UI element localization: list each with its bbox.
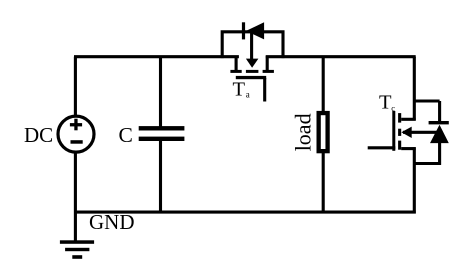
wire Ta right stub bbox=[266, 56, 269, 71]
transistor Tc channel bars bbox=[398, 113, 401, 150]
wire Tc source vertical bbox=[413, 147, 416, 213]
wire Tc diode branch return bbox=[413, 162, 441, 165]
load resistor box bbox=[319, 113, 328, 151]
wire Tc source lead bbox=[401, 147, 416, 150]
wire Tc drain lead bbox=[401, 118, 416, 121]
diode Dc triangle bbox=[430, 125, 449, 143]
wire Ta antiparallel diode branch bbox=[222, 32, 283, 58]
wire Tc diode bottom lead bbox=[438, 143, 441, 165]
wire Tc drain vertical bbox=[413, 57, 416, 121]
dc source plus sign bbox=[70, 119, 82, 131]
wire load bottom lead bbox=[322, 153, 325, 213]
capacitor C plates bbox=[139, 126, 185, 141]
transistor Ta channel bars bbox=[230, 70, 274, 73]
svg-text:a: a bbox=[246, 90, 250, 100]
dc source minus sign bbox=[71, 140, 83, 144]
svg-text:T: T bbox=[379, 92, 392, 114]
svg-text:DC: DC bbox=[24, 123, 53, 147]
diode Dc cathode bar bbox=[429, 121, 449, 124]
svg-text:C: C bbox=[119, 123, 133, 147]
wire capacitor top lead bbox=[159, 57, 162, 127]
svg-text:load: load bbox=[291, 113, 316, 151]
svg-text:T: T bbox=[233, 79, 246, 101]
ground symbol bbox=[60, 240, 94, 258]
wire Ta gate lead bbox=[263, 78, 266, 102]
svg-text:c: c bbox=[391, 103, 395, 113]
wire ground stub bbox=[74, 212, 77, 241]
wire Tc diode top lead bbox=[438, 101, 441, 123]
wire capacitor bottom lead bbox=[159, 140, 162, 212]
wire Tc diode branch top bbox=[413, 99, 440, 102]
wire DC source top lead bbox=[74, 57, 77, 116]
diode Da triangle bbox=[246, 22, 264, 39]
wire Tc gate lead bbox=[368, 146, 396, 149]
wire load top lead bbox=[322, 57, 325, 112]
transistor Ta gate bar bbox=[236, 76, 266, 79]
transistor Tc gate bar bbox=[392, 111, 395, 151]
wire bottom rail bbox=[74, 211, 416, 214]
svg-text:GND: GND bbox=[89, 210, 135, 234]
transistor Ta body arrow bbox=[246, 32, 259, 68]
wire top rail right segment bbox=[266, 55, 416, 58]
transistor Tc body arrow bbox=[401, 127, 439, 138]
wire DC source bottom lead bbox=[74, 153, 77, 213]
wire top rail left segment bbox=[74, 55, 239, 58]
diode Da cathode bar bbox=[242, 22, 245, 39]
dc source V1 circle bbox=[58, 116, 94, 152]
wire Ta left stub bbox=[235, 56, 238, 71]
